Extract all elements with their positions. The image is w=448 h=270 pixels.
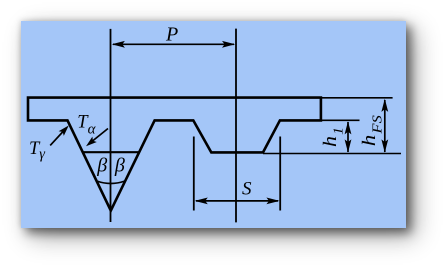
centerline of V tooth <box>110 29 112 222</box>
svg-text:Tγ: Tγ <box>29 139 46 163</box>
svg-text:hFS: hFS <box>359 115 385 146</box>
belt profile outline <box>28 98 321 211</box>
angle arc at V vertex <box>97 181 125 184</box>
svg-text:P: P <box>165 24 178 46</box>
svg-text:h1: h1 <box>320 127 346 147</box>
extension line land level <box>321 119 360 121</box>
svg-text:β: β <box>96 155 107 177</box>
label h1 (rotated) <box>320 127 346 147</box>
svg-text:Tα: Tα <box>77 112 96 137</box>
svg-text:S: S <box>242 178 252 199</box>
label hFS (rotated) <box>359 115 385 146</box>
h1 dimension arrow <box>347 122 349 152</box>
centerline of trapezoid tooth <box>235 29 237 223</box>
P dimension arrow <box>113 43 234 45</box>
extension line top (belt back) <box>321 97 393 99</box>
T_gamma arrow <box>50 131 64 146</box>
tooth tip chord across V tooth <box>83 151 138 153</box>
T_alpha arrow <box>90 129 108 144</box>
svg-text:β: β <box>114 155 125 177</box>
hFS dimension arrow <box>384 100 386 152</box>
extension line tooth tip level <box>263 153 401 155</box>
S extension line right <box>279 137 281 211</box>
S extension line left <box>193 137 195 211</box>
S dimension arrow <box>196 200 278 202</box>
